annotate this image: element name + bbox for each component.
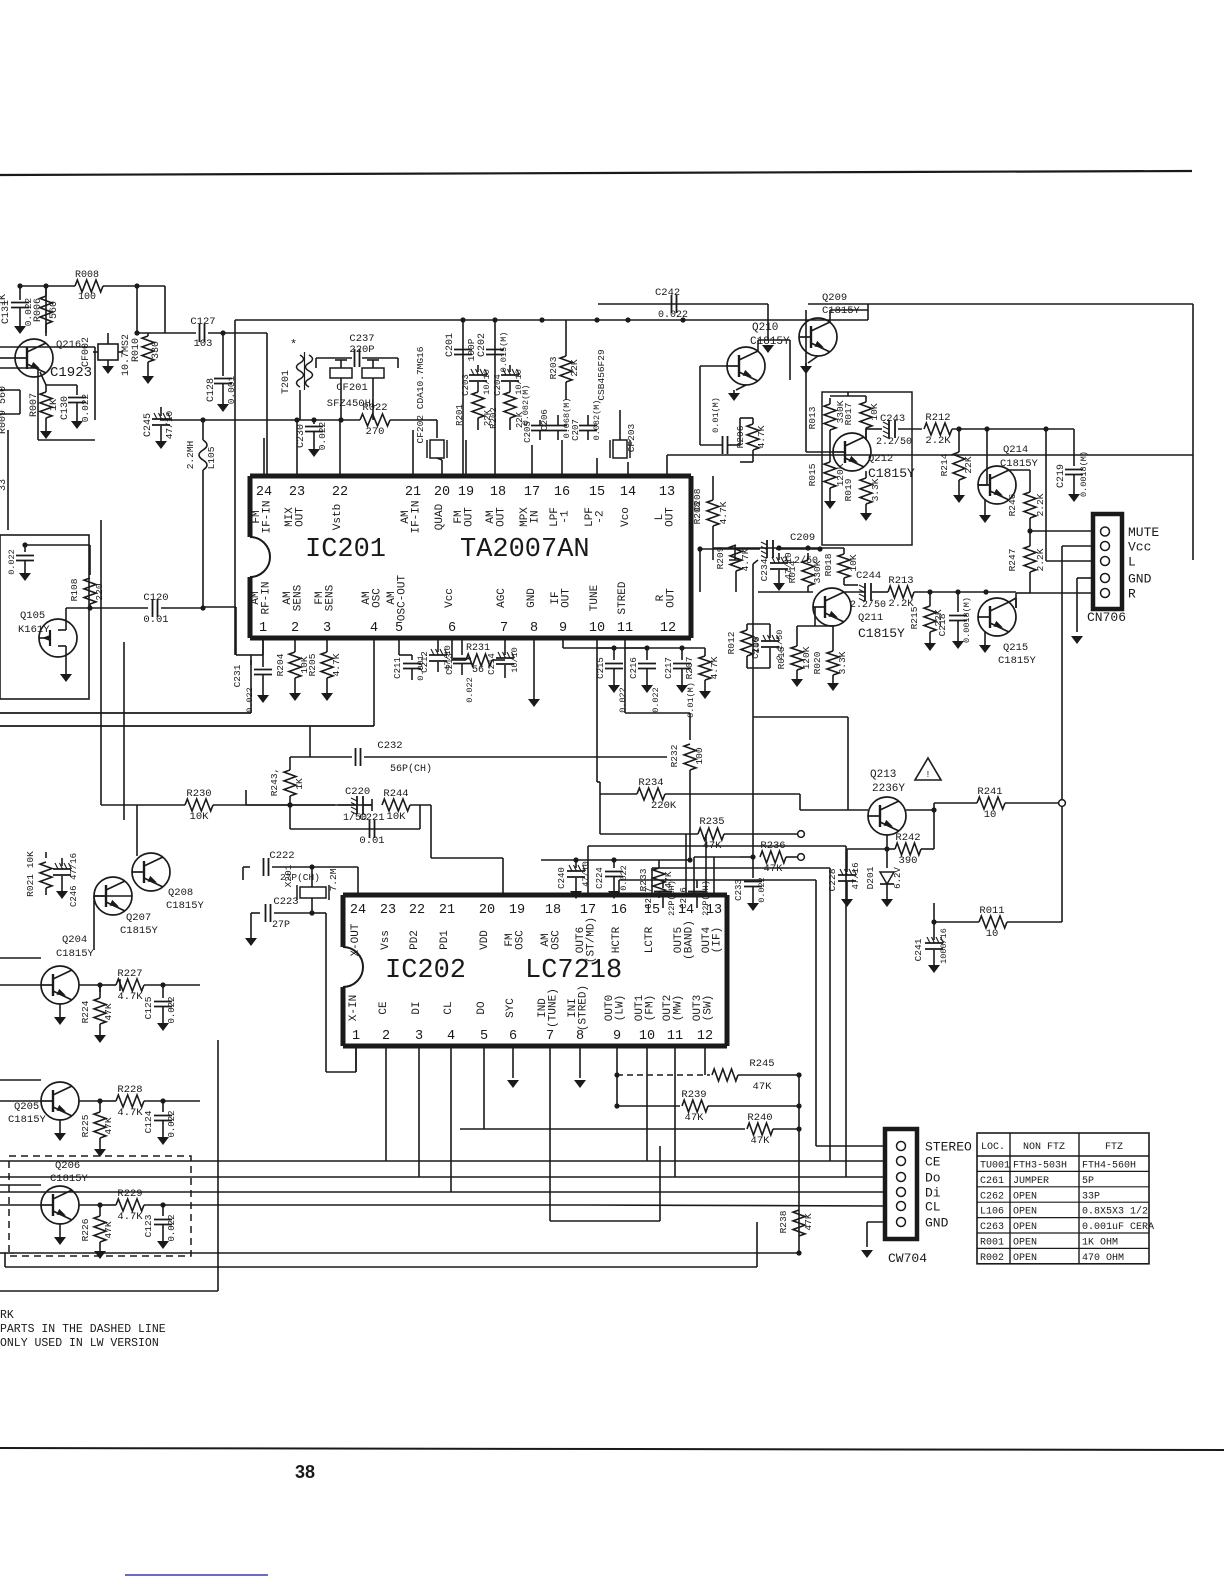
svg-text:C1815Y: C1815Y [822, 305, 861, 317]
svg-text:-2: -2 [595, 510, 607, 523]
svg-text:Do: Do [925, 1171, 941, 1186]
svg-text:R018: R018 [823, 553, 834, 576]
svg-text:C1815Y: C1815Y [120, 925, 159, 937]
svg-text:OPEN: OPEN [1013, 1253, 1037, 1264]
svg-text:R009 560: R009 560 [0, 386, 9, 434]
svg-text:Vco: Vco [620, 507, 632, 527]
svg-text:R204: R204 [275, 653, 286, 676]
svg-text:11: 11 [617, 621, 633, 636]
svg-text:23: 23 [289, 485, 305, 500]
svg-text:10K: 10K [869, 403, 880, 420]
svg-text:T201: T201 [281, 370, 292, 394]
svg-text:CSB456F29: CSB456F29 [596, 349, 607, 401]
svg-text:C209: C209 [790, 532, 815, 544]
svg-text:4: 4 [447, 1029, 455, 1044]
svg-text:10: 10 [984, 809, 997, 821]
svg-text:FTH4-560H: FTH4-560H [1082, 1161, 1136, 1172]
svg-text:47K: 47K [103, 1003, 114, 1020]
svg-text:15: 15 [589, 485, 605, 500]
svg-text:CF203: CF203 [626, 423, 637, 452]
svg-text:Vcc: Vcc [444, 588, 456, 608]
svg-text:C1815Y: C1815Y [166, 900, 205, 912]
svg-text:6: 6 [448, 621, 456, 636]
svg-text:470 OHM: 470 OHM [1082, 1253, 1124, 1264]
svg-text:Q213: Q213 [870, 769, 896, 781]
svg-text:(STRED): (STRED) [578, 985, 590, 1031]
svg-text:QUAD: QUAD [434, 503, 446, 530]
svg-text:R014: R014 [787, 560, 798, 583]
svg-text:CE: CE [925, 1155, 941, 1170]
svg-text:C203: C203 [461, 374, 471, 396]
svg-text:2236Y: 2236Y [872, 783, 905, 795]
svg-text:R002: R002 [980, 1253, 1004, 1264]
svg-text:C130: C130 [60, 396, 71, 420]
svg-text:R238: R238 [778, 1210, 789, 1233]
svg-text:10: 10 [639, 1029, 655, 1044]
svg-text:24: 24 [256, 485, 272, 500]
svg-text:10: 10 [589, 621, 605, 636]
svg-text:R240: R240 [747, 1112, 772, 1124]
svg-text:JUMPER: JUMPER [1013, 1176, 1049, 1187]
svg-text:C243: C243 [880, 413, 905, 425]
svg-text:8: 8 [530, 621, 538, 636]
svg-text:3.3K: 3.3K [870, 478, 881, 501]
svg-text:C224: C224 [595, 867, 605, 889]
svg-text:17: 17 [580, 903, 596, 918]
svg-text:Q210: Q210 [752, 322, 778, 334]
svg-text:100: 100 [78, 292, 96, 303]
svg-text:0.022: 0.022 [619, 865, 629, 891]
svg-text:SENS: SENS [325, 584, 337, 611]
svg-text:R006: R006 [33, 298, 44, 322]
svg-text:(BAND): (BAND) [684, 920, 696, 960]
svg-text:Q207: Q207 [126, 912, 151, 924]
svg-text:SENS: SENS [293, 584, 305, 611]
svg-text:47K: 47K [103, 1117, 114, 1134]
svg-text:2.2K: 2.2K [1035, 493, 1046, 516]
svg-text:C262: C262 [980, 1191, 1004, 1202]
svg-text:R209: R209 [715, 546, 726, 569]
svg-text:220: 220 [94, 583, 105, 600]
svg-text:19: 19 [458, 485, 474, 500]
svg-text:(ST/MD): (ST/MD) [586, 917, 598, 963]
svg-text:C245: C245 [143, 413, 154, 437]
svg-text:LOC.: LOC. [981, 1142, 1005, 1153]
svg-text:C232: C232 [377, 740, 402, 752]
svg-text:OSC: OSC [372, 588, 384, 608]
svg-text:10K: 10K [848, 554, 859, 571]
svg-text:PD1: PD1 [439, 930, 451, 950]
svg-text:R012: R012 [726, 631, 737, 654]
svg-text:21: 21 [439, 903, 455, 918]
svg-text:C228: C228 [827, 868, 838, 891]
svg-text:C1815Y: C1815Y [998, 655, 1037, 667]
svg-text:0.022: 0.022 [167, 996, 177, 1023]
svg-text:C1815Y: C1815Y [858, 626, 905, 641]
svg-text:IC201: IC201 [305, 535, 386, 565]
svg-text:10K: 10K [387, 811, 407, 823]
svg-text:C219: C219 [1056, 464, 1067, 488]
svg-text:(SW): (SW) [703, 995, 715, 1021]
svg-text:20: 20 [479, 903, 495, 918]
svg-text:C1815Y: C1815Y [8, 1114, 47, 1126]
svg-text:0.082(M): 0.082(M) [592, 400, 602, 441]
svg-text:4.7K: 4.7K [718, 501, 729, 524]
svg-text:R020: R020 [812, 651, 823, 674]
svg-text:Vcc: Vcc [1128, 540, 1151, 555]
svg-text:56P(CH): 56P(CH) [390, 763, 432, 775]
svg-text:Q216: Q216 [56, 339, 81, 351]
svg-text:OPEN: OPEN [1013, 1207, 1037, 1218]
svg-text:R230: R230 [186, 788, 211, 800]
svg-text:(MW): (MW) [673, 995, 685, 1021]
svg-text:AGC: AGC [496, 588, 508, 608]
svg-text:(LW): (LW) [615, 995, 627, 1021]
svg-text:R017: R017 [843, 403, 854, 426]
svg-text:DI: DI [411, 1001, 423, 1014]
svg-text:R228: R228 [117, 1084, 142, 1096]
svg-text:C202: C202 [477, 333, 488, 357]
svg-text:C1815Y: C1815Y [1000, 458, 1039, 470]
svg-text:16: 16 [611, 903, 627, 918]
svg-text:TU001: TU001 [980, 1161, 1010, 1172]
svg-text:GND: GND [925, 1216, 949, 1231]
svg-text:R015: R015 [807, 463, 818, 486]
svg-text:R227: R227 [117, 968, 142, 980]
svg-text:R214: R214 [939, 453, 950, 476]
svg-text:47/10: 47/10 [581, 861, 591, 887]
svg-text:100: 100 [694, 747, 705, 764]
svg-text:C204: C204 [493, 374, 503, 396]
svg-text:PD2: PD2 [409, 930, 421, 950]
svg-text:16: 16 [554, 485, 570, 500]
svg-text:R244: R244 [383, 788, 408, 800]
svg-text:CN706: CN706 [1087, 610, 1126, 625]
svg-text:X201: X201 [283, 864, 294, 887]
svg-text:C244: C244 [856, 570, 881, 582]
svg-text:Q215: Q215 [1003, 642, 1028, 654]
svg-text:7: 7 [500, 621, 508, 636]
svg-text:38: 38 [295, 1462, 315, 1482]
svg-text:C222: C222 [269, 850, 294, 862]
svg-text:12: 12 [660, 621, 676, 636]
svg-text:33P: 33P [1082, 1191, 1100, 1202]
svg-text:22: 22 [409, 903, 425, 918]
svg-text:1K: 1K [49, 399, 60, 411]
svg-text:CF202 CDA10.7MG16: CF202 CDA10.7MG16 [415, 346, 426, 443]
svg-text:L: L [1128, 555, 1136, 570]
svg-text:NON FTZ: NON FTZ [1023, 1142, 1065, 1153]
svg-text:RF-IN: RF-IN [261, 581, 273, 614]
svg-text:C261: C261 [980, 1176, 1004, 1187]
svg-text:0.022: 0.022 [618, 687, 628, 713]
svg-text:0.022: 0.022 [757, 877, 767, 903]
svg-text:OSC: OSC [515, 930, 527, 950]
svg-text:D201: D201 [865, 866, 876, 889]
svg-text:4.7K: 4.7K [117, 1211, 143, 1223]
svg-text:1000/16: 1000/16 [939, 928, 949, 964]
svg-text:22K: 22K [569, 359, 580, 376]
svg-text:1: 1 [352, 1029, 360, 1044]
svg-text:4.7K: 4.7K [740, 548, 751, 571]
svg-text:*: * [290, 338, 297, 352]
svg-text:R243,: R243, [269, 768, 280, 797]
svg-text:K161Y: K161Y [18, 624, 50, 636]
svg-text:Q211: Q211 [858, 612, 883, 624]
svg-text:Q208: Q208 [168, 887, 193, 899]
svg-text:2.2/50: 2.2/50 [850, 599, 886, 611]
svg-text:22K: 22K [963, 456, 974, 473]
svg-text:14: 14 [620, 485, 636, 500]
svg-text:OUT: OUT [295, 507, 307, 527]
svg-text:10: 10 [986, 928, 999, 940]
svg-text:Q206: Q206 [55, 1160, 80, 1172]
svg-text:4.7K: 4.7K [709, 656, 720, 679]
svg-text:C216: C216 [629, 657, 639, 679]
svg-text:CL: CL [443, 1001, 455, 1014]
svg-text:C240: C240 [557, 867, 567, 889]
svg-text:0.8X5X3 1/2: 0.8X5X3 1/2 [1082, 1206, 1148, 1218]
svg-text:0.022: 0.022 [80, 393, 91, 422]
svg-text:C223: C223 [273, 896, 298, 908]
svg-text:C218: C218 [937, 613, 948, 636]
svg-text:IF-IN: IF-IN [262, 500, 274, 533]
svg-text:9: 9 [559, 621, 567, 636]
svg-text:X-OUT: X-OUT [350, 923, 362, 956]
svg-text:C127: C127 [190, 316, 215, 328]
svg-text:Di: Di [925, 1186, 941, 1201]
svg-text:R232: R232 [669, 744, 680, 767]
svg-text:C125: C125 [143, 996, 154, 1019]
svg-text:C211: C211 [393, 657, 403, 679]
svg-text:OUT: OUT [496, 507, 508, 527]
svg-text:10/10: 10/10 [482, 369, 492, 395]
svg-text:VDD: VDD [479, 930, 491, 950]
svg-text:OPEN: OPEN [1013, 1238, 1037, 1249]
svg-text:7.2M: 7.2M [328, 868, 339, 891]
svg-text:HCTR: HCTR [611, 926, 623, 953]
svg-text:C241: C241 [913, 938, 924, 961]
svg-text:CF002: CF002 [81, 337, 92, 367]
svg-text:CE: CE [378, 1001, 390, 1015]
svg-text:C128: C128 [206, 378, 217, 402]
svg-text:12: 12 [697, 1029, 713, 1044]
svg-text:27P: 27P [272, 920, 290, 931]
svg-text:C120: C120 [143, 592, 168, 604]
svg-text:R246: R246 [1007, 493, 1018, 516]
svg-text:10/10: 10/10 [510, 647, 520, 673]
svg-text:R108: R108 [69, 578, 80, 601]
svg-text:21: 21 [405, 485, 421, 500]
svg-text:7: 7 [546, 1029, 554, 1044]
svg-text:IC202: IC202 [385, 956, 466, 986]
svg-text:22: 22 [332, 485, 348, 500]
svg-text:C1815Y: C1815Y [56, 948, 95, 960]
svg-text:CW704: CW704 [888, 1251, 927, 1266]
svg-text:IF-IN: IF-IN [411, 500, 423, 533]
svg-text:-1: -1 [560, 510, 572, 524]
svg-text:3: 3 [415, 1029, 423, 1044]
svg-text:STEREO: STEREO [925, 1140, 972, 1155]
svg-text:OUT: OUT [665, 507, 677, 527]
svg-text:IN: IN [530, 510, 542, 523]
svg-text:R229: R229 [117, 1188, 142, 1200]
svg-text:OSC-OUT: OSC-OUT [397, 575, 409, 622]
svg-text:SYC: SYC [505, 998, 517, 1018]
svg-text:C201: C201 [445, 333, 456, 357]
svg-text:C213: C213 [445, 653, 455, 675]
svg-text:5: 5 [395, 621, 403, 636]
svg-text:C1815Y: C1815Y [50, 1173, 89, 1185]
svg-text:R239: R239 [681, 1089, 706, 1101]
svg-text:1K: 1K [0, 294, 9, 306]
svg-text:10K: 10K [190, 811, 210, 823]
svg-text:LC7218: LC7218 [525, 956, 622, 986]
svg-text:103: 103 [194, 338, 213, 350]
svg-text:0.082(M): 0.082(M) [521, 385, 531, 426]
svg-text:3.3K: 3.3K [837, 651, 848, 674]
svg-text:390: 390 [899, 855, 918, 867]
svg-text:RK: RK [0, 1309, 14, 1322]
svg-text:STRED: STRED [617, 581, 629, 614]
svg-text:5: 5 [480, 1029, 488, 1044]
svg-text:C231: C231 [232, 664, 243, 687]
svg-text:R245: R245 [749, 1058, 774, 1070]
svg-text:R011: R011 [979, 905, 1004, 917]
svg-text:47K: 47K [803, 1213, 814, 1230]
svg-text:20: 20 [434, 485, 450, 500]
svg-text:R208: R208 [692, 501, 703, 524]
svg-text:0.001uF CERA: 0.001uF CERA [1082, 1222, 1154, 1233]
svg-text:X-IN: X-IN [348, 995, 360, 1021]
svg-text:R247: R247 [1007, 549, 1018, 572]
svg-text:2.2K: 2.2K [1035, 548, 1046, 571]
svg-text:R224: R224 [80, 1000, 91, 1023]
svg-text:MUTE: MUTE [1128, 525, 1159, 540]
svg-text:R013: R013 [807, 406, 818, 429]
svg-text:1K: 1K [294, 778, 305, 790]
svg-text:DO: DO [476, 1001, 488, 1015]
svg-text:R: R [1128, 587, 1136, 602]
svg-text:OUT: OUT [464, 507, 476, 527]
svg-text:R213: R213 [888, 575, 913, 587]
svg-text:(TUNE): (TUNE) [548, 988, 560, 1028]
svg-text:560: 560 [49, 301, 60, 319]
svg-text:C242: C242 [655, 287, 680, 299]
svg-text:C1815Y: C1815Y [750, 336, 790, 348]
svg-text:2.2/50: 2.2/50 [876, 436, 912, 448]
svg-text:23: 23 [380, 903, 396, 918]
svg-text:C263: C263 [980, 1222, 1004, 1233]
svg-text:Vss: Vss [380, 930, 392, 950]
svg-text:PARTS IN THE DASHED LINE: PARTS IN THE DASHED LINE [0, 1323, 166, 1336]
svg-text:C226: C226 [679, 887, 689, 909]
svg-text:2: 2 [291, 621, 299, 636]
svg-text:47/16: 47/16 [851, 862, 861, 889]
svg-text:5P: 5P [1082, 1176, 1094, 1187]
svg-text:CL: CL [925, 1200, 941, 1215]
svg-text:C246 47/16: C246 47/16 [69, 853, 79, 907]
svg-text:R205: R205 [307, 653, 318, 676]
svg-text:0.022: 0.022 [651, 687, 661, 713]
svg-text:ONLY USED IN LW VERSION: ONLY USED IN LW VERSION [0, 1337, 159, 1350]
svg-text:C221: C221 [359, 812, 384, 824]
svg-text:Q209: Q209 [822, 292, 847, 304]
svg-text:0.022: 0.022 [245, 687, 255, 713]
svg-text:C124: C124 [143, 1110, 154, 1133]
svg-text:C207: C207 [571, 419, 581, 441]
svg-text:22P(CH): 22P(CH) [667, 880, 677, 916]
svg-text:R203: R203 [548, 356, 559, 379]
svg-text:(IF): (IF) [712, 927, 724, 953]
svg-text:1: 1 [259, 621, 267, 636]
svg-text:4.7K: 4.7K [331, 653, 342, 676]
svg-text:C233: C233 [734, 879, 744, 901]
svg-text:TUNE: TUNE [589, 584, 601, 611]
svg-text:C206: C206 [540, 409, 550, 431]
svg-text:C220: C220 [345, 786, 370, 798]
svg-text:Q204: Q204 [62, 934, 87, 946]
svg-text:LCTR: LCTR [644, 926, 656, 953]
svg-text:R215: R215 [909, 606, 920, 629]
svg-text:100P: 100P [466, 338, 477, 361]
svg-text:47K: 47K [685, 1112, 705, 1124]
svg-text:47K: 47K [751, 1135, 771, 1147]
svg-text:56: 56 [472, 665, 484, 676]
svg-text:R225: R225 [80, 1114, 91, 1137]
svg-text:C234: C234 [759, 558, 770, 581]
svg-text:1K OHM: 1K OHM [1082, 1238, 1118, 1249]
svg-text:C214: C214 [487, 653, 497, 675]
svg-text:17: 17 [524, 485, 540, 500]
svg-text:GND: GND [1128, 572, 1152, 587]
svg-text:Vstb: Vstb [332, 504, 344, 530]
svg-text:6.2V: 6.2V [893, 867, 903, 889]
svg-text:C123: C123 [143, 1214, 154, 1237]
svg-text:R241: R241 [977, 786, 1002, 798]
svg-text:4.7K: 4.7K [117, 991, 143, 1003]
svg-text:0.015(M): 0.015(M) [499, 332, 509, 373]
svg-text:R242: R242 [895, 832, 920, 844]
svg-text:3: 3 [323, 621, 331, 636]
svg-text:13: 13 [659, 485, 675, 500]
svg-text:18: 18 [490, 485, 506, 500]
svg-text:C217: C217 [664, 657, 674, 679]
svg-text:GND: GND [526, 588, 538, 608]
svg-text:R212: R212 [925, 412, 950, 424]
svg-text:R207: R207 [684, 657, 695, 680]
svg-text:6: 6 [509, 1029, 517, 1044]
svg-text:OPEN: OPEN [1013, 1191, 1037, 1202]
svg-text:120K: 120K [801, 646, 812, 669]
svg-text:11: 11 [667, 1029, 683, 1044]
svg-text:4: 4 [370, 621, 378, 636]
svg-text:FTZ: FTZ [1105, 1142, 1123, 1153]
svg-text:330K: 330K [812, 560, 823, 583]
svg-text:220P: 220P [349, 344, 374, 356]
svg-text:0.022: 0.022 [658, 310, 688, 321]
svg-text:2: 2 [382, 1029, 390, 1044]
svg-text:0.01: 0.01 [359, 835, 384, 847]
svg-text:220K: 220K [651, 800, 677, 812]
svg-text:!: ! [925, 770, 930, 780]
svg-text:R231: R231 [466, 643, 490, 654]
svg-text:47K: 47K [103, 1221, 114, 1238]
svg-text:9: 9 [613, 1029, 621, 1044]
svg-text:FTH3-503H: FTH3-503H [1013, 1161, 1067, 1172]
svg-text:4.7K: 4.7K [117, 1107, 143, 1119]
svg-text:0.022: 0.022 [465, 677, 475, 703]
